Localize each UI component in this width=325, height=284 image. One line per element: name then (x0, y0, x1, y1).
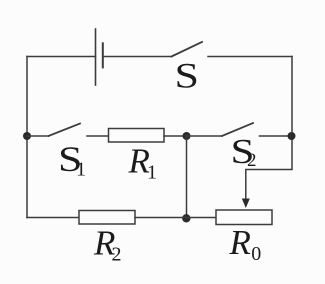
node dot right middle (288, 132, 296, 140)
svg-text:1: 1 (76, 159, 86, 181)
node dot bottom center (182, 214, 190, 222)
label R1 (128, 142, 158, 184)
svg-text:R: R (229, 223, 251, 262)
wire battery to switch S (103, 56, 172, 58)
node dot left S1 (23, 132, 31, 140)
wire center vertical (186, 136, 188, 218)
wire R2 to node (135, 217, 187, 219)
switch S (172, 42, 293, 57)
switch S2 (222, 123, 292, 136)
wire node to S1 pivot (27, 135, 49, 137)
wire R1 to node (164, 135, 187, 137)
wire right vertical lower to elbow (246, 136, 292, 200)
wire bottom-left (27, 217, 79, 219)
wire right vertical upper (291, 57, 293, 137)
svg-text:1: 1 (147, 162, 157, 184)
wire top-left to battery (27, 56, 96, 58)
label S2 (231, 132, 257, 171)
svg-text:2: 2 (112, 244, 122, 266)
label R2 (93, 224, 122, 266)
svg-text:S: S (175, 56, 200, 96)
wire node to S2 pivot (187, 135, 223, 137)
battery (96, 29, 103, 85)
switch S1 (49, 124, 109, 137)
resistor R1 (109, 129, 165, 143)
label R0 (229, 223, 262, 265)
wire node to R0 (187, 217, 217, 219)
svg-text:0: 0 (251, 243, 261, 265)
svg-text:2: 2 (247, 150, 257, 171)
label S1 (58, 139, 86, 181)
resistor R0 (rheostat) (216, 210, 272, 225)
resistor R2 (79, 211, 135, 225)
node dot center middle (183, 132, 191, 140)
wire left vertical (26, 57, 28, 218)
arrowhead rheostat slider (242, 199, 250, 209)
